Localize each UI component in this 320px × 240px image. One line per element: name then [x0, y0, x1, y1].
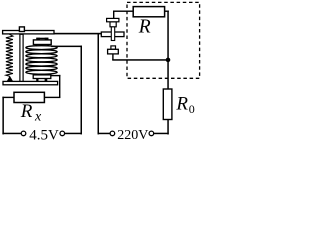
svg-text:4.5V: 4.5V [29, 127, 59, 143]
moving contact rod [111, 26, 114, 40]
wire: Rx left [2, 97, 14, 98]
lower contact pad [108, 49, 119, 54]
coil turn 4 [26, 58, 57, 62]
wire: to 220V left terminal [98, 133, 110, 135]
pivot block on armature [19, 27, 24, 32]
wire: upper contact to R [113, 11, 114, 20]
wire: 220V right terminal to R0 branch [154, 133, 169, 135]
coil top cap [33, 40, 51, 45]
coil turn 6 [26, 66, 57, 70]
junction node [166, 58, 171, 63]
base bar [3, 81, 58, 84]
wire: 4.5V right terminal to riser [65, 133, 82, 135]
coil turn 2 [26, 50, 57, 54]
wire: left down to battery [2, 97, 4, 135]
upper contact stem [110, 22, 116, 27]
wire: lower contact to junction [112, 59, 169, 61]
coil feet [36, 79, 38, 82]
wire: coil bottom terminal to the right [51, 75, 61, 76]
resistor Rx [14, 92, 44, 102]
upper contact pad [107, 18, 119, 21]
wire: to 4.5V left terminal [2, 133, 21, 135]
wire: armature to contact bar [54, 33, 101, 35]
svg-text:R: R [138, 16, 151, 37]
support post [20, 34, 23, 82]
wire: lower contact down [112, 54, 113, 60]
spring [6, 34, 13, 76]
dashed box [127, 2, 200, 78]
coil turn 5 [26, 62, 57, 66]
resistor R [133, 7, 164, 17]
wire: R right step [165, 11, 169, 12]
electromagnet coil turn 1 [26, 46, 57, 50]
wire: down to Rx right wire [59, 75, 60, 98]
wire: right column riser [167, 11, 169, 90]
coil top handle [36, 38, 48, 39]
wire: R0 bottom to 220V [167, 120, 169, 135]
wire: down from coil top wire to 4.5V right terminal [81, 46, 83, 135]
coil turn 7 [26, 70, 57, 74]
contact bar (moving contact holder) [101, 32, 124, 37]
wire: coil top terminal to right [51, 46, 82, 48]
4.5V right terminal [60, 131, 65, 136]
wire: 220V left riser [98, 34, 100, 135]
4.5V left terminal [21, 131, 26, 136]
svg-text:x: x [34, 110, 42, 125]
coil cap legs [35, 45, 37, 47]
coil bottom cap [33, 75, 51, 79]
wire: to Rx right side [44, 97, 60, 98]
resistor R0 [163, 89, 172, 120]
armature bar [3, 31, 54, 34]
coil turn 3 [26, 54, 57, 58]
lower contact stem [111, 46, 116, 49]
svg-text:220V: 220V [117, 128, 148, 143]
svg-text:R: R [175, 94, 188, 115]
spring foot [7, 76, 14, 82]
svg-text:R: R [20, 101, 33, 122]
svg-text:0: 0 [189, 102, 195, 116]
220V right terminal [149, 131, 154, 136]
220V left terminal [110, 131, 115, 136]
